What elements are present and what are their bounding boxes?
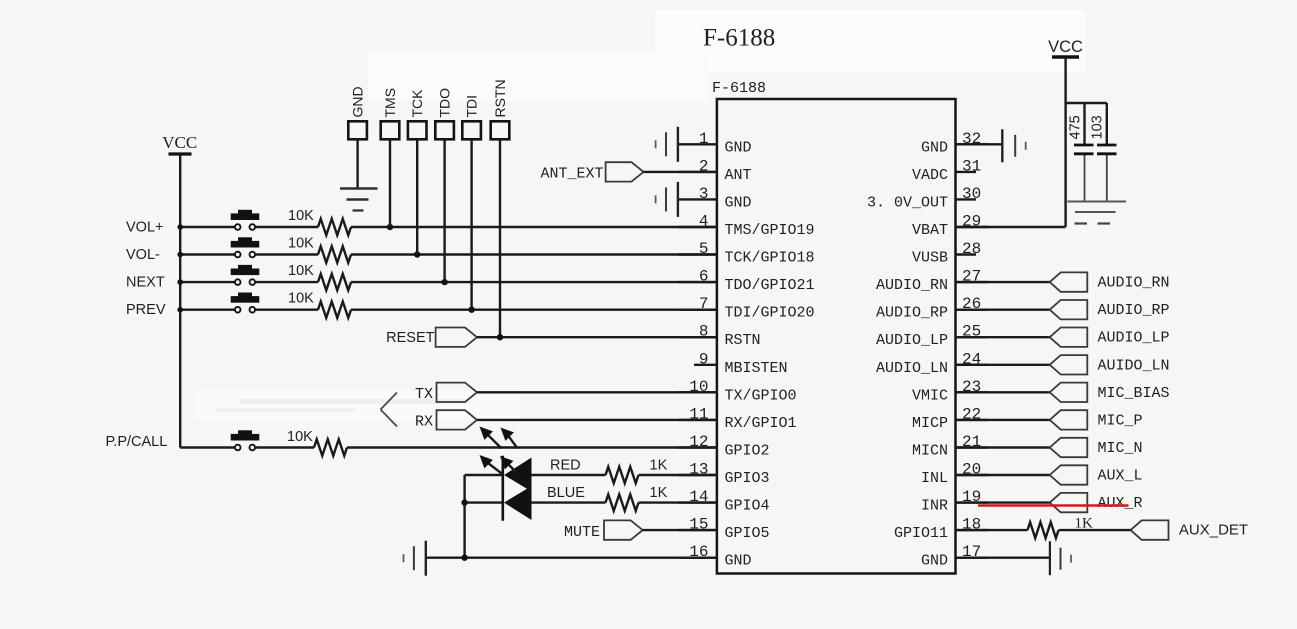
svg-text:GND: GND <box>350 86 366 117</box>
svg-text:AUIDO_LN: AUIDO_LN <box>1098 357 1170 374</box>
svg-text:PREV: PREV <box>126 302 166 318</box>
svg-text:10K: 10K <box>288 263 314 279</box>
wire RESET to pin 8 <box>477 336 717 338</box>
LED D2 BLUE <box>504 486 532 520</box>
connector tag AUDIO_LP <box>1050 328 1088 347</box>
svg-text:MICN: MICN <box>912 443 948 460</box>
svg-text:VOL-: VOL- <box>126 247 160 263</box>
wire RED row <box>532 474 717 476</box>
svg-text:BLUE: BLUE <box>547 485 585 501</box>
test pad TDO <box>435 121 454 139</box>
svg-text:VOL+: VOL+ <box>126 220 163 236</box>
junction dot (VOL+ row) <box>177 224 393 230</box>
wire pin 1 <box>0 0 1 1</box>
svg-text:AUX_DET: AUX_DET <box>1179 522 1248 539</box>
capacitor 103 <box>1097 145 1117 154</box>
svg-text:GPIO4: GPIO4 <box>725 498 770 515</box>
svg-text:GND: GND <box>921 553 948 570</box>
U1 pin 1 GND <box>678 130 752 157</box>
svg-text:TDO: TDO <box>437 88 453 118</box>
connector tag ANT_EXT <box>606 162 644 181</box>
svg-text:MIC_P: MIC_P <box>1098 412 1143 429</box>
svg-text:INR: INR <box>921 498 948 515</box>
chevron mark <box>381 393 398 427</box>
wire pin 32 to capacitor <box>956 143 1003 145</box>
U1 pin 4 TMS/GPIO19 <box>678 213 815 240</box>
U1 pin 25 AUDIO_LP <box>876 323 988 350</box>
svg-text:P.P/CALL: P.P/CALL <box>106 434 168 450</box>
svg-text:TMS: TMS <box>382 88 398 118</box>
resistor 10K (VOL-) <box>318 246 351 262</box>
power flag VCC (right) <box>1048 38 1083 57</box>
ground symbol (JTAG GND pad) <box>340 189 378 211</box>
wire pin 27 to tag <box>956 281 1050 283</box>
junction dot (GND row / LED common) <box>461 555 467 561</box>
svg-text:RX/GPIO1: RX/GPIO1 <box>725 415 797 432</box>
svg-text:475: 475 <box>1068 115 1084 139</box>
svg-text:TDI/GPIO20: TDI/GPIO20 <box>725 305 815 322</box>
wire pin 22 to tag <box>956 419 1050 421</box>
svg-text:TCK/GPIO18: TCK/GPIO18 <box>725 250 815 267</box>
connector tag AUX_L <box>1050 465 1088 484</box>
wire TCK column <box>416 139 418 254</box>
power flag VCC (left) <box>162 133 197 154</box>
wire TX to pin 10 <box>477 391 717 393</box>
wire pin 20 to tag <box>956 474 1050 476</box>
U1 pin 20 INL <box>921 461 988 488</box>
svg-text:MIC_BIAS: MIC_BIAS <box>1098 385 1170 402</box>
svg-text:GND: GND <box>725 553 752 570</box>
pushbutton (PREV) <box>231 293 260 313</box>
capacitor (pin 32 GND) <box>1002 129 1025 162</box>
svg-text:RSTN: RSTN <box>492 79 508 117</box>
U1 pin 21 MICN <box>912 433 988 460</box>
test pad RSTN <box>491 121 510 139</box>
test pad TMS <box>381 121 400 139</box>
svg-text:F-6188: F-6188 <box>712 80 766 97</box>
svg-text:10K: 10K <box>288 291 314 307</box>
svg-text:TCK: TCK <box>409 89 425 118</box>
svg-text:GPIO2: GPIO2 <box>725 443 770 460</box>
U1 pin 17 GND <box>921 543 988 570</box>
wire NEXT row <box>180 281 717 283</box>
wire TMS column <box>389 139 391 227</box>
connector tag AUX_DET <box>1131 520 1169 539</box>
U1 pin 27 AUDIO_RN <box>876 268 988 295</box>
U1 pin 28 VUSB <box>912 240 981 267</box>
ground symbol (right caps) <box>1068 202 1127 224</box>
svg-text:28: 28 <box>962 240 981 258</box>
svg-text:F-6188: F-6188 <box>703 25 775 52</box>
resistor 10K (PREV) <box>318 302 351 318</box>
svg-text:10K: 10K <box>288 208 314 224</box>
resistor 1K (BLUE) <box>606 494 639 510</box>
wire pin 17 <box>956 557 1050 559</box>
svg-text:GPIO11: GPIO11 <box>894 525 948 542</box>
LED arrows (lower pair) <box>480 455 519 475</box>
U1 pin 8 RSTN <box>678 323 761 350</box>
svg-text:MUTE: MUTE <box>564 524 600 541</box>
svg-text:VUSB: VUSB <box>912 250 948 267</box>
svg-text:GPIO5: GPIO5 <box>725 525 770 542</box>
pushbutton (NEXT) <box>231 265 260 285</box>
U1 pin 19 INR <box>921 488 988 514</box>
svg-text:NEXT: NEXT <box>126 275 165 291</box>
svg-text:3: 3 <box>699 185 709 203</box>
svg-text:1K: 1K <box>650 458 668 474</box>
svg-text:ANT_EXT: ANT_EXT <box>540 165 603 182</box>
connector tag MUTE <box>604 520 643 539</box>
wire pin 21 to tag <box>956 446 1050 448</box>
svg-text:31: 31 <box>962 157 981 175</box>
svg-text:VCC: VCC <box>1048 38 1083 56</box>
svg-text:1: 1 <box>699 130 709 148</box>
svg-text:1K: 1K <box>1075 516 1094 532</box>
capacitor (pin 1 GND) <box>656 127 678 162</box>
svg-text:GPIO3: GPIO3 <box>725 470 770 487</box>
U1 pin 22 MICP <box>912 405 988 432</box>
resistor 10K (P.P/CALL) <box>314 439 347 455</box>
capacitor (pin 16 GND) <box>404 541 426 576</box>
wire ANT_EXT to pin 2 <box>644 171 717 173</box>
U1 pin 3 GND <box>678 185 752 212</box>
svg-text:ANT: ANT <box>725 167 752 184</box>
wire TDI column <box>470 139 472 309</box>
wire capacitor branch <box>1066 103 1107 202</box>
wire pin 19 to tag <box>956 501 1050 503</box>
svg-text:MICP: MICP <box>912 415 948 432</box>
wire VCC rail (right) <box>956 57 1066 227</box>
svg-text:RSTN: RSTN <box>725 332 761 349</box>
svg-text:GND: GND <box>725 194 752 211</box>
junction dot (NEXT row) <box>177 279 447 285</box>
wire PREV row <box>180 309 717 311</box>
svg-text:3. 0V_OUT: 3. 0V_OUT <box>867 194 948 211</box>
wire VOL+ row <box>180 226 717 228</box>
svg-text:TDI: TDI <box>464 95 480 118</box>
svg-text:10K: 10K <box>288 236 314 252</box>
U1 pin 10 TX/GPIO0 <box>678 378 797 405</box>
junction dot RSTN/RESET <box>497 334 503 340</box>
U1 pin 12 GPIO2 <box>678 433 770 460</box>
svg-text:TDO/GPIO21: TDO/GPIO21 <box>725 277 815 294</box>
svg-text:1K: 1K <box>650 485 668 501</box>
svg-text:AUDIO_LP: AUDIO_LP <box>876 332 948 349</box>
wire pin 23 to tag <box>956 391 1050 393</box>
U1 pin 15 GPIO5 <box>678 516 770 543</box>
svg-text:RESET: RESET <box>386 330 434 346</box>
wire GND column <box>356 139 358 188</box>
wire VOL- row <box>180 253 717 255</box>
svg-text:VCC: VCC <box>162 133 197 152</box>
connector tag AUDIO_RN <box>1050 272 1088 291</box>
svg-text:30: 30 <box>962 185 981 203</box>
resistor 10K (NEXT) <box>318 274 351 290</box>
resistor 1K (RED) <box>606 467 639 483</box>
svg-text:9: 9 <box>699 350 709 368</box>
wire VCC rail (left) <box>179 154 181 448</box>
U1 pin 24 AUDIO_LN <box>876 350 988 377</box>
svg-text:TX: TX <box>415 386 433 403</box>
connector tag AUX_R <box>1050 493 1088 512</box>
LED D1 RED <box>504 458 532 492</box>
test pad TDI <box>462 121 481 139</box>
U1 pin 5 TCK/GPIO18 <box>678 240 815 267</box>
U1 pin 26 AUDIO_RP <box>876 295 988 322</box>
svg-text:AUDIO_RP: AUDIO_RP <box>876 305 948 322</box>
wire LED common vertical <box>465 475 503 558</box>
pushbutton (P.P/CALL) <box>231 430 260 450</box>
svg-text:GND: GND <box>725 139 752 156</box>
connector tag MIC_P <box>1050 410 1088 429</box>
svg-text:AUDIO_RN: AUDIO_RN <box>876 277 948 294</box>
wire pin 26 to tag <box>956 309 1050 311</box>
capacitor (pin 3 GND) <box>656 182 678 217</box>
resistor 10K (VOL+) <box>318 219 351 235</box>
svg-text:TMS/GPIO19: TMS/GPIO19 <box>725 222 815 239</box>
U1 pin 18 GPIO11 <box>894 516 988 543</box>
U1 pin 16 GND <box>678 543 752 570</box>
U1 pin 6 TDO/GPIO21 <box>678 268 815 295</box>
wire MUTE to pin 15 <box>643 529 717 531</box>
svg-text:AUX_L: AUX_L <box>1098 468 1143 485</box>
svg-text:AUDIO_LN: AUDIO_LN <box>876 360 948 377</box>
svg-text:10K: 10K <box>287 429 313 445</box>
wire TDO column <box>443 139 445 282</box>
U1 pin 32 GND <box>921 130 988 157</box>
connector tag MIC_N <box>1050 438 1088 457</box>
U1 pin 29 VBAT <box>912 213 988 240</box>
op IC U1 F-6188 body <box>717 99 956 574</box>
capacitor 475 <box>1074 145 1094 154</box>
capacitor (pin 17 GND) <box>1050 541 1071 575</box>
U1 pin 7 TDI/GPIO20 <box>678 295 815 322</box>
U1 pin 14 GPIO4 <box>678 488 770 514</box>
svg-text:RED: RED <box>550 458 581 474</box>
wire BLUE row <box>532 501 717 503</box>
pushbutton (VOL+) <box>231 210 260 230</box>
svg-text:103: 103 <box>1090 115 1106 139</box>
svg-text:VADC: VADC <box>912 167 948 184</box>
resistor 1K (AUX_DET) <box>1028 522 1059 538</box>
wire pin 25 to tag <box>956 336 1050 338</box>
connector tag MIC_BIAS <box>1050 383 1088 402</box>
wire pin 16 GND row <box>426 557 717 559</box>
connector tag TX <box>437 383 478 402</box>
U1 pin 30 3. 0V_OUT <box>867 185 981 212</box>
wire RSTN column <box>499 139 501 337</box>
U1 pin 23 VMIC <box>912 378 988 405</box>
svg-text:AUDIO_LP: AUDIO_LP <box>1098 330 1170 347</box>
wire P.P/CALL row <box>180 446 717 448</box>
test pad GND <box>348 121 367 139</box>
U1 pin 9 MBISTEN <box>694 350 788 377</box>
svg-text:MIC_N: MIC_N <box>1098 440 1143 457</box>
wire pin 18 row <box>956 529 1131 531</box>
connector tag AUIDO_LN <box>1050 355 1088 374</box>
test pad TCK <box>408 121 427 139</box>
connector tag RX <box>437 410 478 429</box>
svg-text:GND: GND <box>921 139 948 156</box>
svg-text:RX: RX <box>415 413 433 430</box>
svg-text:TX/GPIO0: TX/GPIO0 <box>725 387 797 404</box>
wire RX to pin 11 <box>477 419 717 421</box>
U1 pin 2 ANT <box>678 157 752 184</box>
junction dot (LED common / GPIO4 row) <box>461 499 467 505</box>
svg-text:VMIC: VMIC <box>912 387 948 404</box>
svg-text:AUX_R: AUX_R <box>1098 495 1143 512</box>
connector tag AUDIO_RP <box>1050 300 1088 319</box>
U1 pin 11 RX/GPIO1 <box>678 405 797 432</box>
svg-text:VBAT: VBAT <box>912 222 948 239</box>
wire pin 24 to tag <box>956 364 1050 366</box>
red annotation line (AUX_R) <box>978 504 1129 507</box>
U1 pin 13 GPIO3 <box>678 461 770 488</box>
U1 pin 31 VADC <box>912 157 981 184</box>
svg-text:MBISTEN: MBISTEN <box>725 360 788 377</box>
svg-text:INL: INL <box>921 470 948 487</box>
LED cathode bar <box>501 456 504 521</box>
svg-text:AUDIO_RP: AUDIO_RP <box>1098 302 1170 319</box>
LED arrows (upper pair) <box>480 427 518 449</box>
svg-text:AUDIO_RN: AUDIO_RN <box>1098 275 1170 292</box>
pushbutton (VOL-) <box>231 237 260 257</box>
connector tag RESET <box>436 328 477 347</box>
junction dot (VOL- row) <box>177 251 420 257</box>
junction dot (PREV row) <box>177 307 474 313</box>
